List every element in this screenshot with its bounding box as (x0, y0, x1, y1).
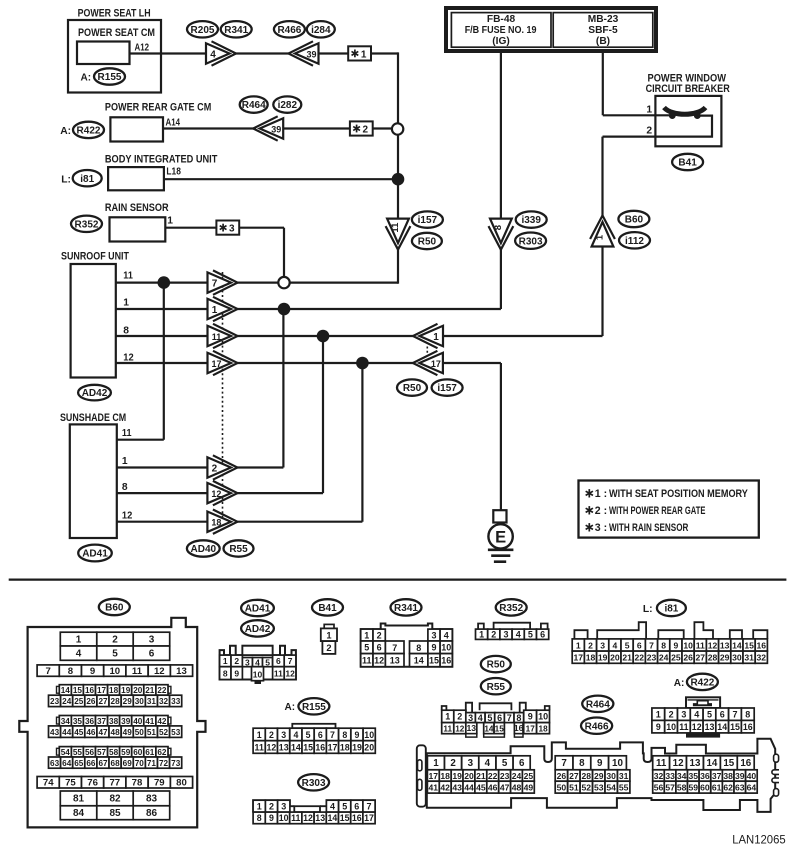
R303 cells row 1 (253, 800, 265, 812)
bulkhead right section cells 56-64 (653, 781, 665, 793)
bulkhead connector left end plate (417, 745, 426, 806)
svg-text:4: 4 (293, 730, 298, 740)
svg-text:AD42: AD42 (245, 624, 271, 635)
svg-text:27: 27 (569, 771, 579, 781)
svg-text:6: 6 (149, 649, 155, 660)
B60 cells 4-6 (60, 646, 97, 660)
svg-text:2: 2 (646, 126, 652, 137)
svg-text:9: 9 (269, 813, 274, 823)
svg-text:15: 15 (73, 686, 83, 695)
svg-text:4: 4 (694, 710, 699, 720)
R50/R55 cells row 1 (442, 710, 454, 722)
svg-text:2: 2 (377, 630, 382, 640)
svg-text:MB-23: MB-23 (588, 14, 619, 25)
svg-text:24: 24 (62, 697, 72, 706)
svg-text:4: 4 (485, 758, 491, 769)
svg-text:79: 79 (154, 778, 165, 789)
arrow 18 right (207, 512, 231, 532)
svg-text:B60: B60 (105, 603, 124, 614)
svg-text:A12: A12 (135, 43, 150, 54)
connector ellipses R50 R55 pinout labels (481, 656, 511, 672)
fuse box FB-48 / MB-23 (446, 8, 656, 51)
wire arrow 11 to left arrow 1 (237, 335, 414, 337)
svg-text:1: 1 (479, 630, 484, 640)
svg-text:58: 58 (109, 748, 119, 757)
svg-text:R466: R466 (585, 721, 609, 732)
connector ellipses R466 i284 (274, 21, 305, 37)
separator line (9, 578, 787, 580)
svg-text:56: 56 (85, 748, 95, 757)
junction dot L18 node (392, 173, 405, 186)
svg-text:42: 42 (157, 717, 167, 726)
svg-text:5: 5 (112, 649, 118, 660)
svg-text:5: 5 (502, 758, 508, 769)
B60 cells 7-13 (37, 665, 59, 676)
svg-text:B60: B60 (625, 215, 644, 226)
svg-text:36: 36 (700, 771, 710, 781)
connector R352 housing tabs (478, 623, 547, 629)
svg-text:84: 84 (73, 808, 85, 819)
svg-text:8: 8 (579, 758, 585, 769)
svg-text:SUNSHADE CM: SUNSHADE CM (60, 412, 126, 424)
svg-text:18: 18 (440, 771, 450, 781)
wire arrow 2 up to sunroof pin 1 dot (236, 466, 283, 468)
svg-text:24: 24 (512, 771, 522, 781)
svg-text:7: 7 (561, 758, 567, 769)
svg-text:4: 4 (478, 713, 483, 723)
svg-text:1: 1 (167, 216, 173, 227)
svg-text:50: 50 (557, 783, 567, 793)
svg-text:86: 86 (146, 808, 158, 819)
svg-text:50: 50 (135, 728, 145, 737)
svg-text:33: 33 (665, 771, 675, 781)
connector ellipse B41 pinout label (312, 599, 343, 615)
wire *1 to main vertical node (371, 52, 398, 54)
svg-text:3: 3 (431, 630, 436, 640)
svg-text:13: 13 (705, 722, 715, 732)
svg-text:2: 2 (491, 630, 496, 640)
connector ellipse AD42 (78, 385, 111, 401)
connector i81 housing tabs (574, 622, 767, 639)
svg-text:4: 4 (444, 630, 449, 640)
svg-text:73: 73 (171, 759, 181, 768)
svg-text:81: 81 (73, 794, 85, 805)
svg-text:20: 20 (133, 686, 143, 695)
svg-text:SUNROOF UNIT: SUNROOF UNIT (61, 251, 129, 263)
svg-text:49: 49 (524, 783, 534, 793)
svg-text:5: 5 (625, 640, 630, 650)
connector ellipse B41 (672, 154, 703, 170)
R50/R55 cells row 2 (442, 723, 454, 734)
R422 cells row 2 (652, 720, 665, 733)
dotted mechanical link line (222, 272, 224, 521)
svg-text:46: 46 (488, 783, 498, 793)
svg-text:6: 6 (276, 656, 281, 666)
connector ellipses R50 i157 below arrow 17 (397, 379, 427, 395)
AD41/AD42 cells row 1 (220, 655, 231, 667)
svg-text:1: 1 (576, 640, 581, 650)
connector R422 housing top block (686, 697, 720, 708)
svg-text:7: 7 (649, 640, 654, 650)
svg-text:29: 29 (720, 653, 730, 663)
svg-text:4: 4 (516, 630, 521, 640)
svg-text:12: 12 (285, 668, 295, 678)
svg-text:11: 11 (212, 332, 222, 342)
svg-text:1: 1 (433, 332, 439, 343)
connector ellipse R341 pinout label (391, 599, 422, 615)
svg-text:20: 20 (610, 653, 620, 663)
svg-text:1: 1 (646, 104, 652, 115)
svg-text:10: 10 (279, 813, 289, 823)
bulkhead middle section cells 50-55 (555, 781, 567, 793)
svg-text:1: 1 (433, 758, 439, 769)
svg-text:23: 23 (647, 653, 657, 663)
svg-text:14: 14 (414, 656, 424, 666)
svg-text:39: 39 (121, 717, 131, 726)
connector R155 housing tab (292, 724, 335, 728)
wire arrow 7 to open circle node (237, 282, 279, 284)
svg-text:80: 80 (176, 778, 187, 789)
svg-text:37: 37 (97, 717, 107, 726)
svg-text:R352: R352 (499, 603, 523, 614)
svg-text:8: 8 (493, 225, 504, 230)
svg-text:5: 5 (306, 730, 311, 740)
svg-text:16: 16 (757, 640, 767, 650)
svg-text:6: 6 (720, 710, 725, 720)
svg-text:35: 35 (73, 717, 83, 726)
svg-text:2: 2 (212, 463, 218, 474)
svg-text:11: 11 (123, 271, 133, 282)
svg-text:3: 3 (281, 802, 286, 812)
svg-text:10: 10 (253, 670, 263, 680)
svg-text:39: 39 (271, 124, 281, 134)
svg-text:BODY INTEGRATED UNIT: BODY INTEGRATED UNIT (105, 154, 218, 166)
svg-text:6: 6 (354, 802, 359, 812)
svg-text:12: 12 (455, 725, 465, 734)
svg-text:i157: i157 (418, 215, 438, 226)
svg-text:21: 21 (145, 686, 155, 695)
open junction circle *2 node (392, 123, 403, 134)
svg-text:6: 6 (540, 630, 545, 640)
svg-text:A:: A: (674, 678, 685, 689)
svg-text:13: 13 (390, 656, 400, 666)
svg-text:10: 10 (109, 666, 120, 677)
svg-text:52: 52 (159, 728, 169, 737)
svg-text:44: 44 (62, 728, 72, 737)
svg-text:i282: i282 (278, 100, 298, 111)
in-line connector arrow 11 (down) with i157 R50 (386, 226, 411, 250)
svg-text:57: 57 (97, 748, 107, 757)
svg-text:22: 22 (488, 771, 498, 781)
connector R341 housing (361, 624, 453, 667)
svg-text:8: 8 (661, 640, 666, 650)
svg-text:B41: B41 (318, 603, 337, 614)
svg-text:9: 9 (90, 666, 95, 677)
svg-text:2: 2 (112, 634, 118, 645)
svg-text:L:: L: (61, 175, 71, 186)
svg-text:8: 8 (68, 666, 74, 677)
junction dot sunroof pin 8 (317, 330, 330, 343)
svg-text:62: 62 (157, 748, 167, 757)
wire arrow 17 to left arrow 17 (237, 362, 414, 364)
svg-text:12: 12 (211, 489, 221, 499)
svg-text:3: 3 (245, 657, 250, 667)
svg-text:16: 16 (315, 742, 325, 752)
svg-text:2: 2 (669, 710, 674, 720)
svg-text:2: 2 (588, 640, 593, 650)
svg-text:34: 34 (677, 771, 687, 781)
svg-text:6: 6 (519, 758, 525, 769)
svg-text:12: 12 (673, 758, 684, 769)
svg-text:43: 43 (50, 728, 60, 737)
svg-text:74: 74 (43, 778, 54, 789)
svg-text:A14: A14 (166, 118, 181, 129)
connector ellipses AD41 AD42 pinout labels (241, 600, 274, 616)
svg-text:61: 61 (145, 748, 155, 757)
R352 cells (476, 629, 488, 639)
svg-text:7: 7 (288, 656, 293, 666)
svg-text:39: 39 (735, 771, 745, 781)
svg-text:78: 78 (132, 778, 143, 789)
svg-text:19: 19 (598, 653, 608, 663)
R341 cells row 3 (361, 654, 373, 667)
svg-text:17: 17 (526, 725, 536, 734)
wire power seat A12 to arrow 4 (130, 52, 207, 54)
svg-text:1: 1 (76, 634, 82, 645)
svg-text:71: 71 (147, 759, 157, 768)
svg-text:8: 8 (257, 813, 262, 823)
svg-text:17: 17 (364, 813, 374, 823)
svg-text:28: 28 (582, 771, 592, 781)
svg-text:12: 12 (303, 813, 313, 823)
svg-text:68: 68 (111, 759, 121, 768)
arrow 7 right (208, 272, 232, 292)
svg-text:59: 59 (121, 748, 131, 757)
svg-text:61: 61 (712, 783, 722, 793)
svg-text:31: 31 (619, 771, 629, 781)
svg-text:25: 25 (74, 697, 84, 706)
svg-text:25: 25 (671, 653, 681, 663)
svg-text:3: 3 (681, 710, 686, 720)
in-line connector arrow 39 rear gate (left) (260, 118, 284, 138)
svg-text:CIRCUIT BREAKER: CIRCUIT BREAKER (646, 83, 730, 95)
svg-text:36: 36 (85, 717, 95, 726)
svg-text:18: 18 (340, 742, 350, 752)
svg-text:9: 9 (355, 730, 360, 740)
svg-text:26: 26 (683, 653, 693, 663)
svg-text:11: 11 (291, 813, 300, 823)
option box *3 (216, 221, 239, 235)
circuit breaker bimetal contact symbol (664, 108, 706, 115)
svg-text:56: 56 (654, 783, 664, 793)
svg-text:8: 8 (745, 710, 750, 720)
B60 cells 84-86 (60, 806, 97, 820)
svg-text:18: 18 (586, 653, 596, 663)
svg-text:AD42: AD42 (82, 388, 108, 399)
svg-text:LAN12065: LAN12065 (732, 832, 786, 846)
junction dot sunroof pin 12 (356, 357, 369, 370)
svg-text:51: 51 (569, 783, 579, 793)
svg-text:9: 9 (431, 643, 436, 653)
option box *1 (348, 46, 371, 60)
wire arrow 4 to arrow 39 (235, 52, 290, 54)
connector ellipse B60 pinout label (99, 599, 130, 615)
i81 cells row 1 (572, 639, 584, 651)
svg-text:7: 7 (212, 278, 218, 289)
svg-text:41: 41 (429, 783, 439, 793)
connector B60 housing outline (19, 618, 205, 828)
svg-text:23: 23 (500, 771, 510, 781)
svg-text:17: 17 (97, 686, 107, 695)
svg-text:43: 43 (452, 783, 462, 793)
svg-text:23: 23 (50, 697, 60, 706)
svg-text:20: 20 (364, 742, 374, 752)
svg-text:37: 37 (712, 771, 722, 781)
R422 cells row 1 (652, 708, 665, 720)
connector ellipses AD40 R55 (187, 540, 220, 556)
svg-text:15: 15 (303, 742, 313, 752)
svg-text:19: 19 (352, 742, 362, 752)
wire arrow 1 to IG vertical (237, 308, 501, 310)
svg-text:72: 72 (159, 759, 169, 768)
B60 cells 63-73 (49, 757, 61, 768)
in-line connector arrow 8 (down) with i339 R303 (489, 226, 514, 250)
svg-text:10: 10 (683, 640, 693, 650)
svg-text:10: 10 (538, 712, 548, 722)
svg-text:8: 8 (516, 713, 521, 723)
bulkhead connector housing outline (427, 739, 775, 812)
bulkhead middle section cells 7-10 (555, 756, 573, 770)
svg-text:63: 63 (735, 783, 745, 793)
svg-text:76: 76 (87, 778, 98, 789)
svg-text:11: 11 (656, 758, 667, 769)
svg-text:3: 3 (468, 713, 473, 723)
svg-text:52: 52 (582, 783, 592, 793)
B60 cells 34-42 (57, 717, 60, 724)
svg-text:9: 9 (234, 668, 239, 678)
svg-text:11: 11 (362, 656, 372, 666)
svg-text:18: 18 (539, 725, 549, 734)
svg-text:WITH POWER REAR GATE: WITH POWER REAR GATE (609, 505, 705, 517)
svg-text:26: 26 (86, 697, 96, 706)
svg-text:4: 4 (76, 649, 82, 660)
svg-text:6: 6 (377, 643, 382, 653)
svg-text:16: 16 (352, 813, 362, 823)
svg-text:55: 55 (619, 783, 629, 793)
B60 cells 74-80 (37, 777, 59, 789)
svg-text:69: 69 (123, 759, 133, 768)
junction dot sunroof pin 11 (158, 276, 171, 289)
svg-text:7: 7 (732, 710, 737, 720)
svg-text:83: 83 (146, 794, 158, 805)
svg-text:25: 25 (524, 771, 534, 781)
in-line connector arrow 1 (up) with B60 i112 (590, 216, 615, 240)
svg-text:11: 11 (274, 668, 283, 678)
svg-text:3: 3 (281, 730, 286, 740)
svg-text:55: 55 (73, 748, 83, 757)
svg-text:5: 5 (528, 630, 533, 640)
svg-text:8: 8 (123, 325, 129, 336)
svg-text:22: 22 (157, 686, 167, 695)
i81 cells row 2 (572, 651, 584, 663)
wire *3 to sunroof pin 11 node (239, 227, 284, 229)
svg-text:59: 59 (689, 783, 699, 793)
svg-text:AD41: AD41 (245, 604, 271, 615)
R50/R55 bottom tabs (466, 734, 477, 737)
svg-text:FB-48: FB-48 (487, 14, 516, 25)
wire arrow 39 to option box *2 (283, 127, 350, 129)
svg-text:14: 14 (706, 758, 717, 769)
svg-text:11: 11 (390, 222, 401, 233)
svg-text:AD40: AD40 (191, 544, 217, 555)
svg-text:28: 28 (708, 653, 718, 663)
bulkhead left section cells 17-25 (427, 770, 439, 781)
svg-text:7: 7 (330, 730, 335, 740)
B60 cells 43-53 (49, 726, 61, 738)
svg-text:64: 64 (62, 759, 72, 768)
ground hatch bars (488, 548, 514, 551)
svg-text:70: 70 (135, 759, 145, 768)
svg-text:10: 10 (612, 758, 623, 769)
wire *2 to open junction (373, 127, 392, 129)
svg-text:12: 12 (374, 656, 384, 666)
svg-text:47: 47 (98, 728, 108, 737)
svg-text:27: 27 (696, 653, 706, 663)
connector AD41/AD42 housing (220, 646, 296, 680)
svg-text:L:: L: (643, 604, 653, 615)
AD41/AD42 raised top plate (242, 646, 272, 655)
svg-text:11: 11 (696, 640, 705, 650)
svg-text:6: 6 (318, 730, 323, 740)
svg-text:R55: R55 (487, 682, 506, 693)
svg-text:R50: R50 (418, 237, 437, 248)
svg-text:1 :: 1 : (595, 488, 607, 500)
svg-text:2: 2 (457, 712, 462, 722)
svg-text:i81: i81 (664, 604, 678, 615)
svg-text:WITH SEAT POSITION MEMORY: WITH SEAT POSITION MEMORY (609, 488, 748, 500)
svg-text:14: 14 (328, 813, 338, 823)
svg-text:7: 7 (366, 802, 371, 812)
ground terminal square (493, 510, 506, 522)
svg-text:1: 1 (445, 712, 450, 722)
svg-text:45: 45 (476, 783, 486, 793)
wire MB-23 down and right to breaker pin 1 (602, 51, 604, 115)
svg-text:29: 29 (123, 697, 133, 706)
svg-text:E: E (495, 528, 506, 546)
svg-text:5: 5 (265, 657, 270, 667)
svg-text:2: 2 (234, 656, 239, 666)
svg-text:30: 30 (135, 697, 145, 706)
svg-text:11: 11 (132, 666, 143, 677)
wire breaker pin 2 down to arrow 1 up (601, 137, 603, 217)
svg-text:R422: R422 (690, 678, 714, 689)
svg-text:i284: i284 (311, 25, 331, 36)
svg-text:10: 10 (666, 722, 676, 732)
svg-text:13: 13 (690, 758, 701, 769)
connector B41 housing (324, 624, 334, 628)
svg-text:20: 20 (464, 771, 474, 781)
bulkhead right section cells 32-40 (653, 770, 665, 781)
svg-text:18: 18 (109, 686, 119, 695)
svg-text:POWER SEAT CM: POWER SEAT CM (78, 27, 155, 39)
svg-text:12: 12 (267, 742, 277, 752)
wire A14 to arrow 39 (163, 127, 256, 129)
R303 cells row 2 (253, 812, 265, 824)
svg-text:11: 11 (122, 428, 132, 439)
bulkhead connector right bracket slots (774, 754, 779, 762)
wire left arrow 1 to breaker vertical (443, 335, 603, 337)
svg-text:RAIN SENSOR: RAIN SENSOR (105, 202, 169, 214)
